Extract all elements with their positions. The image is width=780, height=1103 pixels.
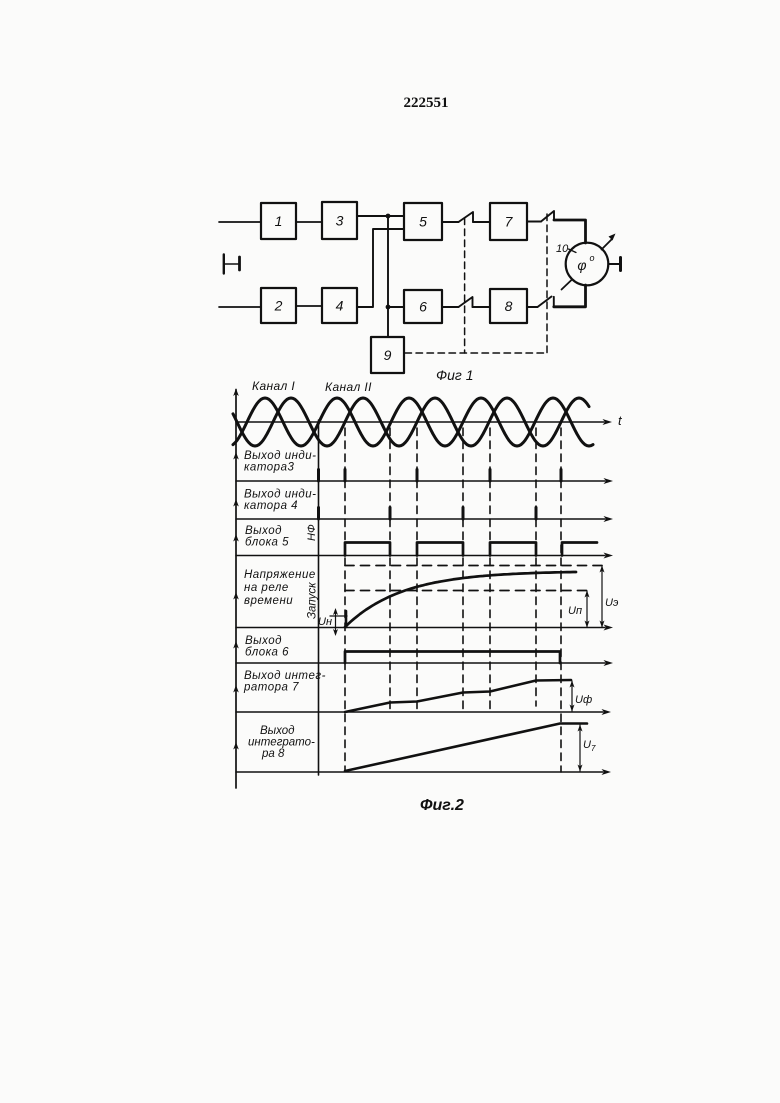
svg-text:222551: 222551 (404, 95, 449, 111)
adjustment arrow lower segment (562, 280, 573, 290)
svg-text:на реле: на реле (244, 582, 289, 594)
axis int7 (236, 711, 603, 713)
wire 2 to 4 (296, 305, 322, 307)
axis ind4 (236, 518, 605, 520)
left vertical axis (235, 390, 237, 789)
initial jump Un at start (345, 611, 348, 627)
relay voltage dashed level Up (345, 590, 589, 592)
axis relay (236, 627, 605, 629)
wire 8 to meter bottom (554, 285, 586, 307)
relay voltage dashed level Ue (345, 565, 604, 567)
svg-text:6: 6 (419, 299, 427, 315)
svg-text:Выход инди-: Выход инди- (244, 489, 317, 501)
svg-text:Выход: Выход (245, 525, 282, 537)
dashed timing line x=390 (389, 428, 391, 712)
block 1 (261, 203, 296, 239)
svg-text:Uэ: Uэ (605, 597, 619, 609)
dashed timing line x=345 (344, 428, 346, 770)
junction dot A (386, 214, 391, 219)
dashed timing line x=561 (560, 428, 562, 772)
wire 7 to meter top (554, 220, 586, 243)
svg-text:блока 6: блока 6 (245, 647, 289, 659)
wire 3 to 5 (357, 215, 404, 217)
dashed timing line x=536 (535, 428, 537, 706)
axis int8 (236, 771, 603, 773)
svg-text:катора 4: катора 4 (244, 500, 298, 512)
svg-text:интеграто-: интеграто- (248, 737, 315, 749)
svg-text:10: 10 (556, 243, 569, 255)
svg-text:4: 4 (336, 298, 344, 314)
terminal symbol right (608, 263, 619, 265)
block 4 (322, 288, 357, 323)
svg-text:3: 3 (336, 213, 344, 229)
integrator 7 output staircase (345, 680, 571, 712)
Un tick line (330, 615, 347, 617)
svg-text:Выход: Выход (260, 725, 295, 737)
axis ind3 (236, 480, 605, 482)
svg-text:5: 5 (419, 214, 427, 230)
block 6 (404, 290, 442, 323)
svg-text:Фиг.2: Фиг.2 (420, 797, 464, 814)
axis blk6 (236, 662, 605, 664)
wire to block 6 (388, 306, 404, 308)
axis blk5 (236, 555, 605, 557)
wire input to block 1 (219, 221, 261, 223)
relay charge exponential curve (345, 572, 576, 627)
svg-text:7: 7 (505, 214, 514, 230)
svg-text:U: U (583, 739, 591, 751)
integrator 8 output ramp (345, 724, 587, 772)
Uf measure arrow (571, 681, 573, 711)
sine wave channel I (233, 398, 593, 446)
leader line for 10 (569, 249, 577, 253)
block 5 output square pulses (345, 543, 390, 556)
svg-text:Выход: Выход (245, 635, 282, 647)
block 7 (490, 203, 527, 240)
svg-text:φ: φ (577, 257, 586, 273)
terminal symbol left (224, 255, 240, 274)
block 9 (371, 337, 404, 373)
wire 1 to 3 (296, 221, 322, 223)
adjustment arrow upper segment with head (602, 239, 613, 250)
svg-text:7: 7 (591, 744, 596, 753)
block 2 (261, 288, 296, 323)
block 5 (404, 203, 442, 240)
wire input to block 2 (219, 306, 261, 308)
switch between 5 and 7 (442, 212, 490, 222)
junction dot B (386, 305, 391, 310)
svg-text:ратора 7: ратора 7 (243, 682, 299, 694)
svg-text:блока 5: блока 5 (245, 537, 289, 549)
indicator 4 output pulses (317, 508, 320, 520)
block 8 (490, 289, 527, 323)
svg-text:Uп: Uп (568, 605, 582, 617)
block 3 (322, 202, 357, 239)
svg-text:Фиг 1: Фиг 1 (436, 367, 474, 383)
switch between 7 and meter (527, 211, 554, 222)
wire 4 up to 5 (357, 229, 404, 307)
svg-text:8: 8 (505, 298, 513, 314)
svg-text:Канал II: Канал II (325, 380, 372, 394)
svg-text:Выход интег-: Выход интег- (244, 670, 326, 682)
dashed timing line x=490 (489, 428, 491, 712)
wire junction vertical to block 9 (387, 216, 389, 337)
svg-text:Напряжение: Напряжение (244, 569, 316, 581)
Un double arrow (335, 610, 337, 634)
svg-text:Uф: Uф (575, 694, 592, 706)
svg-text:2: 2 (274, 298, 283, 314)
svg-text:9: 9 (384, 347, 392, 363)
svg-text:НФ: НФ (306, 524, 318, 541)
sine wave channel II (233, 398, 589, 446)
dashed control line vertical to switch A (464, 218, 466, 353)
indicator 3 output pulses (317, 470, 320, 482)
svg-text:Выход инди-: Выход инди- (244, 450, 317, 462)
dashed timing line x=417 (416, 428, 418, 712)
dashed control line from 9 horizontal (405, 352, 547, 354)
svg-text:времени: времени (244, 595, 293, 607)
svg-text:ра 8: ра 8 (261, 748, 285, 760)
block 6 output pulse (345, 652, 560, 664)
switch between 6 and 8 (442, 297, 490, 307)
svg-text:Uн: Uн (318, 616, 332, 628)
dashed timing line x=463 (462, 428, 464, 712)
start (zapusk) solid vertical line (318, 420, 320, 775)
svg-text:1: 1 (275, 213, 283, 229)
svg-text:o: o (589, 253, 594, 263)
switch between 8 and meter (527, 297, 554, 308)
dashed control line vertical to switch B (546, 214, 548, 353)
Up measure arrow (586, 591, 588, 627)
axis sine (236, 421, 604, 423)
svg-text:Запуск: Запуск (307, 582, 319, 619)
Ut measure arrow (579, 725, 581, 771)
svg-text:катора3: катора3 (244, 462, 294, 474)
Ue measure arrow (601, 566, 603, 627)
meter circle 10 (566, 243, 609, 286)
svg-text:Канал I: Канал I (252, 379, 295, 393)
